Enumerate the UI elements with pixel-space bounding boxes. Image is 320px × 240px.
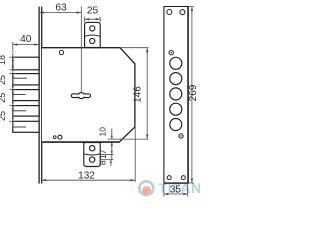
svg-text:8: 8 [98, 160, 108, 165]
svg-text:25: 25 [0, 75, 7, 85]
svg-text:132: 132 [78, 171, 95, 182]
svg-text:63: 63 [55, 2, 67, 13]
svg-text:40: 40 [20, 34, 32, 45]
svg-text:25: 25 [0, 111, 7, 121]
svg-text:18: 18 [0, 55, 7, 65]
svg-text:35: 35 [170, 184, 182, 195]
svg-text:17: 17 [98, 149, 108, 159]
svg-text:25: 25 [87, 5, 99, 16]
svg-text:146: 146 [133, 86, 144, 103]
svg-text:269: 269 [188, 84, 199, 101]
svg-text:10: 10 [97, 127, 107, 137]
svg-text:25: 25 [0, 93, 7, 103]
